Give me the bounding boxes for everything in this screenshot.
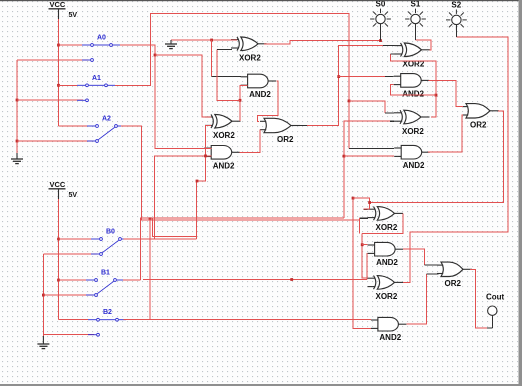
wire ground to switch B0 bottom [43,253,97,255]
wire P1 to XOR2 U6 bottom (black) [391,53,395,55]
svg-text:A1: A1 [92,75,101,82]
op XOR2 U13 (bit2 sum) [368,276,404,302]
wire A1 to AND2 U9 top (black) [349,147,394,149]
wire ground to switch A0 bottom [17,59,88,61]
wire AND2 U12 out to OR2 U15 top [403,249,425,265]
VCC supply V2 5V [49,180,78,199]
wire AND2 U9 out to OR2 U10 bottom [428,115,463,152]
junction P0 [239,99,242,102]
wire VCC1 vertical [58,19,60,126]
wire S0 lamp stub [380,24,382,41]
lamp S2 [446,1,467,31]
junction GND2-B1 [42,294,45,297]
wire VCC to A0 [59,44,83,46]
junction S0 lamp [379,39,382,42]
svg-text:AND2: AND2 [403,161,425,170]
junction VCC2-B1 [57,279,60,282]
wire AND2 U2 out to OR2 U5 top [257,81,277,121]
wire VCC to B1 [59,279,87,281]
wire Cout stub [491,316,493,328]
wire jog line A to B0 elbow [153,218,197,237]
op AND2 U4 (A0 and B0) [204,146,240,171]
op AND2 U9 (A1 and B1) [394,145,430,170]
op XOR2 U11 (A2 xor B2) [368,207,404,233]
wire B1 to AND2 U9 bottom [344,155,394,157]
op XOR2 U6 (bit1 sum) [395,43,431,69]
wire GND1 vertical [16,60,18,153]
op AND2 U7 [394,74,430,99]
wire OR2 U5 out stub (black) [300,125,307,127]
wire AND2 U14 out to OR2 U15 bottom [406,274,426,324]
ground GND2 [37,336,49,349]
wire A2 drop to XOR2 U11 top [369,203,371,210]
svg-text:AND2: AND2 [402,89,424,98]
lamp S0 [370,0,391,29]
wire P2 to AND2 U12 top [362,244,367,246]
wire VCC to B0 [59,238,92,240]
lamp S1 [405,0,426,29]
op XOR2 U8 (A1 xor B1) [394,110,430,136]
junction VCC1-A1 [57,84,60,87]
junction C1 elbow [352,197,355,200]
wire B1 riser to FA1 [344,121,390,218]
op OR2 U5 (carry C0) [260,118,300,144]
svg-text:XOR2: XOR2 [402,127,424,136]
wire S2 from XOR2 U13 out [403,37,508,282]
svg-text:Cout: Cout [486,293,505,302]
svg-text:A2: A2 [102,116,111,123]
svg-text:AND2: AND2 [376,258,398,267]
junction GND1-A1 [16,99,19,102]
VCC supply V1 5V [49,0,78,19]
wire XOR2 U11 bottom stub (black) [360,217,368,219]
junction C0 [337,75,340,78]
svg-text:XOR2: XOR2 [376,223,398,232]
switch B0 (down position) [91,229,129,256]
wire AND2 U4 out to OR2 U5 bottom [240,130,260,153]
junction C1-A2 [368,201,371,204]
ground GND3 (Cin bit0) [165,40,177,49]
svg-text:AND2: AND2 [379,333,401,342]
svg-text:A0: A0 [97,35,106,42]
wire A2 stub riser [359,218,361,220]
op AND2 U12 [368,242,404,267]
svg-text:XOR2: XOR2 [239,54,261,63]
op OR2 U15 (carry out) [437,262,472,288]
svg-text:5V: 5V [69,12,78,19]
svg-text:OR2: OR2 [277,135,294,144]
wire B0 riser to AND2 U4 bottom [155,156,212,239]
svg-text:B2: B2 [103,309,112,316]
wire C1 from OR2 U10 out [370,111,504,203]
wire B1 row [123,279,140,281]
wire B0 row [124,238,197,240]
wire P0 XOR2 U3 out to AND2 U2 bottom [240,86,248,122]
wire A2 join [364,208,370,210]
wire C0 branch to AND2 U7 [339,76,385,78]
wire S1 from XOR2 U6 out [416,40,432,50]
svg-text:AND2: AND2 [249,90,271,99]
wire A1 riser [115,14,349,149]
junction P2 [361,243,364,246]
wire C0 to XOR2 U6 top (black) [383,44,395,46]
wire ground to switch B2 bottom [43,334,94,336]
wire P1 XOR2 U8 out loop [391,54,436,117]
op AND2 U2 (bit0 carry a) [241,74,277,99]
wire P0 to XOR2 U1 bottom (black) [217,48,232,50]
junction A1 [348,100,351,103]
svg-text:OR2: OR2 [470,120,487,129]
junction B1 [343,155,346,158]
switch A0 (closed up) [82,35,120,62]
junction B0 [204,155,207,158]
switch A1 (closed up) [77,75,115,102]
svg-text:S1: S1 [411,0,421,9]
op XOR2 U1 (bit0 sum) [231,37,267,63]
svg-text:VCC: VCC [50,0,66,9]
junction B1/B2 line [149,217,152,220]
connector Cout [486,293,505,316]
wire B1 riser and line to FA1 [140,218,344,280]
wire S1 lamp stub [415,24,417,40]
wire VCC to A1 [59,84,78,86]
wire ground net to XOR2 U1 top [171,39,237,41]
junction B0 elbow [196,180,199,183]
wire ground to switch A2 bottom [17,140,93,142]
wire ground net riser [211,40,213,76]
op XOR2 U3 (A0 xor B0) [205,114,241,140]
junction C1 [290,278,293,281]
wire P1 to AND2 U7 bottom [391,85,436,96]
svg-text:B0: B0 [106,229,115,236]
svg-text:S2: S2 [451,1,461,10]
junction VCC2-B0 [57,238,60,241]
wire C1 riser to AND2 U14 bottom [353,198,371,328]
svg-text:S0: S0 [376,0,386,9]
wire A1 to XOR2 U8 top (black) [385,112,394,114]
wire ground to switch B1 bottom [43,294,93,296]
op OR2 U10 (carry C1) [462,104,499,130]
svg-text:5V: 5V [69,192,78,199]
wire S0 from XOR2 U1 out [264,41,381,44]
wire B2 row to AND2 U14 top [124,319,372,321]
frame border [0,0,522,1]
wire A0 riser to AND2 U4 top [120,45,212,149]
wire riser XOR2 U11 bottom to P2 line [359,218,361,233]
wire P2 riser to XOR2 U13 top [362,233,367,278]
wire B0 riser to XOR2 U3 bottom [197,126,212,240]
ground GND1 [11,153,23,164]
svg-text:VCC: VCC [50,180,66,189]
svg-text:XOR2: XOR2 [376,292,398,301]
svg-text:B1: B1 [101,270,110,277]
wire B1 to XOR2 U8 bottom (black) [390,120,394,122]
wire VCC to B2 [59,319,89,321]
wire ground to switch A1 bottom [17,99,83,101]
junction A0 [154,54,157,57]
op AND2 U14 (A2 and B2) [371,317,407,342]
wire C1 elbow [353,198,370,202]
svg-text:OR2: OR2 [445,279,462,288]
switch A2 (down position) [87,116,125,143]
wire P2 XOR2 U11 out loop [362,213,403,233]
wire to OR2 U15 top (black) [425,264,439,266]
svg-text:XOR2: XOR2 [213,131,235,140]
wire S2 lamp stub [455,25,457,37]
junction VCC1-A0 [57,44,60,47]
wire A2 riser and line to XOR2 U11 [121,126,360,220]
wire Cout corner (black) [487,327,492,329]
wire ground net to AND2 U2 top (black) [212,75,241,77]
wire C1 distribution line [143,279,367,281]
junction GND1-A2 [16,140,19,143]
wire AND2 U7 out to OR2 U10 top [429,80,463,106]
wire A0 to XOR2 U3 top [155,55,211,117]
wire to OR2 U15 bottom (black) [427,273,439,275]
junction ground net [210,39,213,42]
wire C0 to AND2 U7 top (black) [385,76,394,78]
junction P1 [435,94,438,97]
wire B2 riser [149,219,151,320]
wire C0 from OR2 U5 out [307,45,383,125]
wire C1 to AND2 U12 bottom [366,253,368,279]
wire OR2 U15 out to Cout [470,269,487,328]
wire VCC to A2 [59,125,88,127]
switch B1 (down position) [86,270,124,297]
wire P0 riser [217,49,240,100]
wire VCC2 vertical [58,199,60,320]
wire XOR2 U11 top stub (black) [364,208,368,210]
wire GND2 vertical [42,254,44,336]
wire A1 branch [349,101,385,113]
svg-text:AND2: AND2 [213,161,235,170]
switch B2 (closed up) [88,309,126,336]
